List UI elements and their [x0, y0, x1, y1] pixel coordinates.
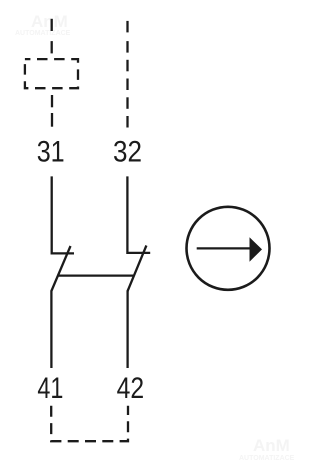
svg-text:AUTOMATIZACE: AUTOMATIZACE — [15, 30, 71, 37]
wire: terminal 32 lead with fixed contact bar — [127, 176, 150, 253]
watermark bottom-right — [239, 436, 295, 462]
mechanical linkage bar between contacts — [58, 274, 134, 276]
wire: dashed mechanical link, left top — [51, 19, 53, 54]
watermark top-left — [15, 12, 71, 37]
rotary actuation symbol: arrow head — [250, 237, 263, 262]
svg-text:32: 32 — [113, 135, 142, 168]
wire: dashed mechanical link, right top — [126, 21, 128, 128]
NC contact 31-41 moving contact (diagonal) — [51, 246, 70, 291]
operating device (dashed box) — [25, 59, 78, 88]
svg-text:42: 42 — [117, 372, 145, 405]
wire: dashed mechanical link, below box — [51, 95, 53, 127]
svg-text:AUTOMATIZACE: AUTOMATIZACE — [239, 455, 294, 462]
svg-text:31: 31 — [37, 135, 65, 168]
wire: terminal 31 lead with fixed contact bar — [52, 176, 74, 253]
NC contact 32-42 moving contact (diagonal) — [128, 246, 147, 292]
wire: dashed mechanical link, bottom U — [51, 406, 128, 441]
wire: terminal 42 lead — [126, 291, 128, 369]
rotary actuation symbol: circle — [187, 207, 270, 290]
svg-text:AnM: AnM — [253, 436, 290, 455]
rotary actuation symbol: arrow shaft — [197, 247, 251, 249]
svg-text:41: 41 — [37, 372, 63, 405]
wire: terminal 41 lead — [50, 291, 52, 369]
svg-text:AnM: AnM — [31, 12, 68, 31]
